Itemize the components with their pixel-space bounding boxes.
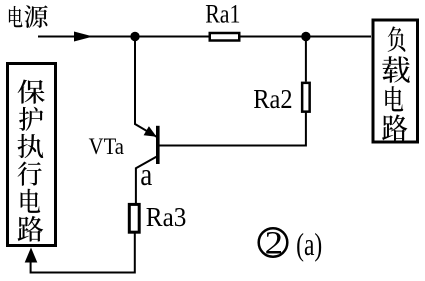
- wire: Ra1/Ra2 node down through Ra2 and base lead to VTa: [160, 37, 306, 146]
- svg-text:a: a: [140, 156, 152, 192]
- resistor Ra3 (vertical, collector): [129, 204, 139, 232]
- resistor Ra1 (horizontal, on supply rail): [210, 33, 240, 41]
- label 保: [18, 79, 45, 103]
- transistor VTa emitter arrowhead (points into bar: PNP): [144, 126, 157, 137]
- block: protection actuator circuit 保护执行电路: [8, 64, 56, 246]
- label 护: [19, 107, 43, 131]
- wire: collector lead down to Ra3: [136, 157, 157, 203]
- label 载: [382, 56, 410, 83]
- transistor VTa (PNP) base bar: [156, 126, 160, 164]
- svg-text:(a): (a): [296, 227, 322, 262]
- label 执: [18, 134, 44, 158]
- svg-text:Ra3: Ra3: [146, 202, 187, 232]
- svg-text:Ra2: Ra2: [253, 84, 292, 114]
- wire: Ra3 bottom, feedback return line to protection box: [31, 233, 135, 273]
- arrow: feedback into protection box: [25, 248, 38, 263]
- label 路: [382, 115, 407, 141]
- svg-text:VTa: VTa: [89, 134, 124, 159]
- svg-text:Ra1: Ra1: [205, 0, 240, 29]
- wire: supply rail from 电源 to load box: [38, 36, 371, 38]
- svg-text:2: 2: [265, 226, 283, 262]
- junction node: supply rail / VTa emitter: [130, 32, 139, 41]
- label 路: [18, 216, 44, 242]
- label 行: [18, 162, 42, 186]
- label 电: [385, 86, 403, 111]
- resistor Ra2 (vertical, base bias): [302, 83, 310, 112]
- block: load circuit 负载电路: [373, 20, 418, 142]
- label 负: [388, 26, 406, 51]
- wire: emitter drop from supply node to VTa: [135, 37, 157, 137]
- figure label: circled 2: [259, 228, 288, 257]
- arrow: current direction on supply rail: [74, 32, 93, 42]
- label 电: [21, 189, 41, 213]
- power source label 源: [24, 5, 47, 28]
- power source label 电: [9, 6, 23, 27]
- junction node: Ra1 / Ra2 / load: [301, 32, 310, 41]
